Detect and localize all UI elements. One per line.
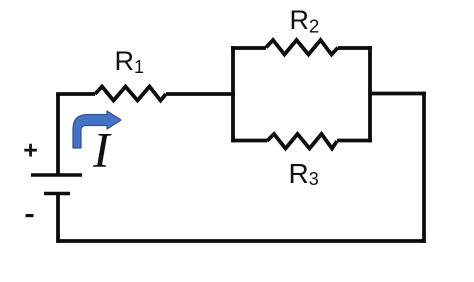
wire: bottom branch left segment xyxy=(231,139,267,143)
wire: outer right vertical xyxy=(422,92,426,243)
resistor R2 xyxy=(266,40,338,55)
wire: parallel network right vertical xyxy=(368,46,372,142)
wire: bottom branch right segment xyxy=(337,139,372,143)
wire: top-left horizontal from corner to R1 xyxy=(56,92,95,96)
svg-text:I: I xyxy=(92,122,112,178)
wire: bottom return xyxy=(58,239,426,243)
wire: R1 to parallel-network left node xyxy=(166,92,235,96)
wire: right node to outer right side xyxy=(370,92,426,96)
svg-text:R2: R2 xyxy=(290,5,320,37)
wire: left vertical (top-left corner down to battery positive plate) xyxy=(56,94,60,175)
svg-text:R1: R1 xyxy=(115,46,145,77)
resistor R3 xyxy=(267,134,337,149)
current arrow (bent blue arrow) xyxy=(73,111,121,148)
battery polarity label - xyxy=(26,214,34,217)
wire: battery negative plate down to bottom return xyxy=(56,194,60,243)
wire: top branch left segment xyxy=(231,46,266,50)
svg-text:+: + xyxy=(23,137,38,165)
battery positive plate (long) xyxy=(31,173,82,177)
wire: parallel network left vertical xyxy=(231,46,235,142)
resistor R1 xyxy=(95,87,166,101)
battery negative plate (short) xyxy=(44,192,70,196)
svg-text:R3: R3 xyxy=(289,158,319,189)
wire: top branch right segment xyxy=(338,46,372,50)
